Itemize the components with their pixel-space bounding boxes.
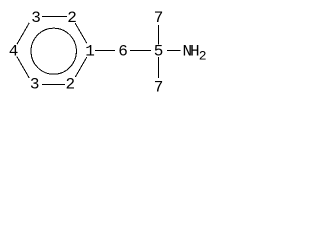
bond C5-C7 top	[158, 25, 160, 45]
bond C3-C2 top	[42, 16, 67, 18]
bond C6-C5	[130, 50, 151, 52]
bond C1-C6	[95, 50, 115, 52]
svg-text:2: 2	[199, 49, 207, 64]
bond C4-C3 upper-left	[17, 23, 29, 45]
svg-text:6: 6	[118, 42, 128, 60]
svg-text:7: 7	[154, 9, 164, 27]
bond C5-C7 bottom	[158, 57, 160, 78]
svg-text:4: 4	[9, 42, 19, 60]
bond C3-C2 bottom	[42, 84, 65, 86]
svg-text:3: 3	[30, 76, 40, 94]
svg-text:7: 7	[154, 78, 164, 96]
svg-text:5: 5	[154, 42, 164, 60]
bond C2-C1 lower-right	[75, 57, 87, 77]
bond C4-C3 lower-left	[17, 57, 29, 79]
svg-text:3: 3	[31, 9, 41, 27]
bond C2-C1 upper-right	[75, 23, 87, 43]
svg-text:2: 2	[67, 9, 77, 27]
aromatic ring circle	[31, 28, 76, 74]
bond C5-N	[167, 50, 181, 52]
svg-text:1: 1	[85, 42, 95, 60]
svg-text:2: 2	[65, 76, 75, 94]
